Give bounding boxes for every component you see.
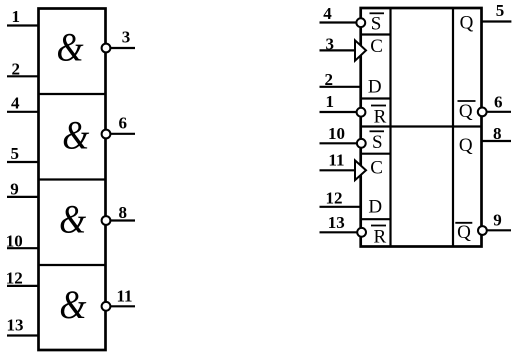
svg-text:1: 1 <box>326 92 335 111</box>
cell line under S of FF2 <box>361 153 391 155</box>
svg-text:5: 5 <box>496 1 505 20</box>
gate divider between U1.2 and U1.3 <box>39 178 106 180</box>
svg-text:11: 11 <box>328 151 344 170</box>
svg-text:R: R <box>374 107 387 128</box>
wire input pin 2 (FF1 D) <box>320 86 361 88</box>
svg-text:1: 1 <box>12 7 21 26</box>
wire input pin 13 (FF2 R) <box>320 231 357 233</box>
cell line under S of FF1 <box>361 33 391 35</box>
svg-text:S: S <box>371 13 382 34</box>
wire input pin 1 <box>7 24 39 26</box>
wire input pin 2 <box>7 75 39 77</box>
divider between flip-flop FF1 and FF2 <box>361 125 482 127</box>
svg-text:3: 3 <box>326 35 335 54</box>
gate divider between U1.3 and U1.4 <box>39 264 106 266</box>
wire output pin 6 (FF1 inverted Q) <box>487 111 511 113</box>
clock edge triangle pin 11 <box>355 160 366 180</box>
inner column line left (control field) <box>389 8 391 247</box>
svg-text:6: 6 <box>119 113 128 132</box>
svg-text:S: S <box>372 132 383 153</box>
IC1 quad 2-input NAND gate block outline <box>39 9 106 351</box>
wire output pin 8 (FF2 Q) <box>482 140 512 142</box>
svg-text:10: 10 <box>328 124 345 143</box>
wire output pin 6 <box>111 133 136 135</box>
gate divider between U1.1 and U1.2 <box>39 93 106 95</box>
svg-text:R: R <box>374 226 387 247</box>
svg-text:C: C <box>370 157 383 178</box>
svg-text:Q: Q <box>457 222 471 243</box>
svg-text:8: 8 <box>493 124 502 143</box>
svg-text:&: & <box>56 26 84 70</box>
svg-text:&: & <box>62 114 90 158</box>
svg-text:12: 12 <box>6 269 23 288</box>
svg-text:2: 2 <box>12 59 21 78</box>
svg-text:4: 4 <box>11 94 20 113</box>
svg-text:10: 10 <box>6 231 23 250</box>
wire output pin 11 <box>111 305 136 307</box>
inversion bubble pin 9 <box>478 226 487 235</box>
wire input pin 12 (FF2 D) <box>320 206 361 208</box>
inversion bubble output pin 11 <box>102 302 111 311</box>
IC2 dual D flip-flop block outline <box>361 8 482 247</box>
wire input pin 13 <box>7 334 39 336</box>
svg-text:&: & <box>59 198 87 242</box>
wire output pin 5 (FF1 Q) <box>482 20 512 22</box>
wire input pin 10 <box>7 247 39 249</box>
svg-text:&: & <box>59 284 87 328</box>
wire input pin 5 <box>7 161 39 163</box>
wire output pin 3 <box>111 47 136 49</box>
svg-text:Q: Q <box>460 13 474 34</box>
inversion bubble output pin 3 <box>102 44 111 53</box>
inversion bubble output pin 6 <box>102 130 111 139</box>
svg-text:Q: Q <box>459 135 473 156</box>
svg-text:2: 2 <box>325 70 334 89</box>
wire output pin 8 <box>111 219 136 221</box>
svg-text:3: 3 <box>122 27 131 46</box>
svg-text:12: 12 <box>326 189 343 208</box>
svg-text:11: 11 <box>117 287 133 306</box>
cell line above R of FF1 <box>361 97 391 99</box>
svg-text:Q: Q <box>459 101 473 122</box>
wire input pin 10 (FF2 S) <box>320 142 357 144</box>
svg-text:D: D <box>368 197 382 218</box>
wire input pin 1 (FF1 R) <box>320 111 357 113</box>
wire input pin 9 <box>7 196 39 198</box>
svg-text:9: 9 <box>10 179 18 198</box>
inversion bubble pin 6 <box>478 108 487 117</box>
inversion bubble pin 1 <box>357 108 366 117</box>
svg-text:C: C <box>370 36 383 57</box>
svg-text:8: 8 <box>119 203 128 222</box>
svg-text:5: 5 <box>11 144 20 163</box>
cell line above R of FF2 <box>361 218 391 220</box>
inversion bubble output pin 8 <box>102 216 111 225</box>
inversion bubble pin 13 <box>357 228 366 237</box>
wire input pin 4 <box>7 111 39 113</box>
inversion bubble pin 4 <box>356 18 365 27</box>
inner column line right (output field) <box>452 8 454 247</box>
svg-text:6: 6 <box>494 92 503 111</box>
svg-text:13: 13 <box>7 316 24 335</box>
wire input pin 11 (FF2 C) <box>320 169 355 171</box>
svg-text:4: 4 <box>323 4 332 23</box>
wire output pin 9 (FF2 inverted Q) <box>487 229 511 231</box>
wire input pin 4 (FF1 S) <box>320 21 357 23</box>
inversion bubble pin 10 <box>357 139 366 148</box>
svg-text:D: D <box>368 76 382 97</box>
svg-text:13: 13 <box>328 213 345 232</box>
wire input pin 3 (FF1 C) <box>320 49 355 51</box>
wire input pin 12 <box>7 285 39 287</box>
clock edge triangle pin 3 <box>355 40 366 60</box>
svg-text:9: 9 <box>493 210 502 229</box>
